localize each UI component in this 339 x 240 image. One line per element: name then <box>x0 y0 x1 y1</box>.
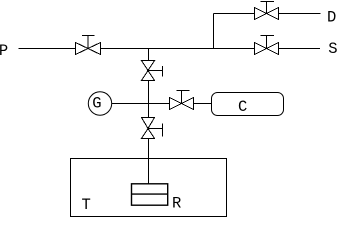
valve V5 (to C) <box>170 91 194 110</box>
valve V3 (D line) <box>255 2 279 20</box>
valve V2 (vertical, upper) <box>142 61 163 81</box>
wire riser to D branch <box>213 14 215 49</box>
svg-text:T: T <box>82 196 91 214</box>
svg-text:G: G <box>92 95 101 113</box>
wire D branch to valve V3 <box>214 13 255 15</box>
box C (controller) <box>212 93 284 116</box>
component R (heater in tank) <box>132 184 168 205</box>
wire valve V5 to box C <box>194 103 212 105</box>
wire gauge G to valve V5 <box>112 103 170 105</box>
wire valve V2 to G junction <box>148 81 150 118</box>
wire P to valve V1 <box>19 48 76 50</box>
svg-text:D: D <box>327 9 336 27</box>
wire drop from main line to valve V2 <box>148 49 150 61</box>
svg-text:S: S <box>328 40 337 58</box>
wire main line valve V1 to valve V4 (S) through junctions <box>101 48 255 50</box>
wire valve V3 to D <box>279 13 321 15</box>
gauge G <box>88 92 111 115</box>
wire valve V6 into tank T <box>148 139 150 185</box>
valve V6 (vertical, lower) <box>142 118 163 139</box>
wire valve V4 to S <box>279 48 321 50</box>
svg-text:R: R <box>172 195 181 213</box>
svg-text:C: C <box>238 98 247 116</box>
valve V4 (S line) <box>255 36 279 55</box>
valve V1 (main line, hand valve) <box>76 36 101 55</box>
tank T <box>71 159 227 217</box>
svg-text:P: P <box>0 42 8 60</box>
